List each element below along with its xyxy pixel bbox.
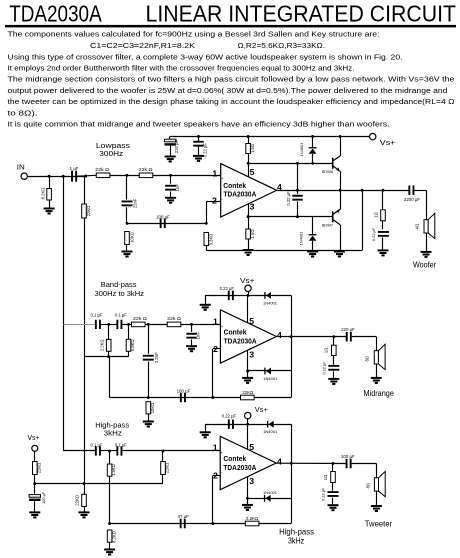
resistor 1.5 ohm pin3 [246, 229, 255, 250]
node fb2 row2 [211, 396, 214, 399]
capacitor 0.1uF bp1 [91, 313, 103, 329]
ground 1nF row2 [186, 346, 197, 351]
node interbase bottom [296, 215, 299, 218]
ground woofer [421, 252, 432, 257]
capacitor 1nF shunt [165, 175, 180, 198]
node bp mid2 [147, 323, 150, 326]
svg-text:0.22 µF: 0.22 µF [286, 191, 291, 206]
diode D1 1N4001 [299, 137, 316, 164]
svg-text:LINEAR INTEGRATED CIRCUIT: LINEAR INTEGRATED CIRCUIT [146, 1, 457, 27]
svg-text:0.1 µF: 0.1 µF [115, 442, 127, 447]
ground input shunt [44, 209, 55, 214]
svg-text:1: 1 [212, 168, 217, 178]
node fb1 row2 [147, 396, 150, 399]
ground 0.22uF row3 [200, 424, 211, 437]
svg-text:Woofer: Woofer [413, 260, 436, 269]
ground 1nF [165, 198, 176, 203]
capacitor 100uF output row3 [341, 454, 355, 468]
svg-text:The midrange section consisto: The midrange section consistors of two f… [8, 75, 455, 84]
capacitor 0.1uF hp1 [91, 442, 103, 455]
svg-text:The components values calculat: The components values calculated for fc=… [8, 30, 380, 39]
svg-text:300Hz: 300Hz [99, 149, 123, 158]
node B junction [84, 175, 87, 178]
wire IN to node A [27, 176, 85, 178]
capacitor 22nF mid node [122, 175, 138, 223]
ground pin3 row2 [242, 378, 253, 383]
wire pin2 row2 [213, 348, 221, 350]
wire base1 [248, 163, 333, 165]
op-amp U1 Contek TDA2030A [221, 164, 277, 217]
label High-pass 3kHz top [95, 420, 129, 437]
ground zobel row1 [378, 250, 389, 255]
transistor Q2 BD907 [322, 190, 341, 251]
node hp n2 [162, 450, 165, 453]
svg-text:Contek: Contek [223, 183, 246, 190]
svg-text:22KΩ: 22KΩ [165, 463, 170, 474]
svg-text:1N4001: 1N4001 [299, 142, 304, 157]
svg-text:10KΩ: 10KΩ [130, 232, 135, 243]
wire bus node B down to bandpass [84, 218, 86, 357]
op-amp U3 Contek TDA2030A [220, 436, 276, 489]
wire pin5 riser [248, 163, 250, 177]
wire to tweeter [352, 463, 377, 465]
capacitor 100uF row2 [177, 388, 191, 402]
node 22nF bottom junction [126, 222, 129, 225]
resistor 8.2K row3 gnd [107, 530, 116, 550]
svg-text:Using this type of crossover f: Using this type of crossover filter, a c… [8, 52, 403, 61]
svg-text:2.2KΩ: 2.2KΩ [99, 339, 104, 351]
wire pin5 row2 [247, 295, 249, 322]
ground 10K row2 [143, 422, 154, 427]
resistor 6.8K bp shunt2 [126, 324, 135, 356]
wire pin5 row3 [247, 424, 249, 449]
wire output rail 1 [277, 190, 409, 192]
svg-text:1Ω: 1Ω [323, 348, 328, 353]
capacitor 0.22uF supply [193, 137, 207, 158]
wire pin3 row3 [247, 477, 249, 505]
svg-text:C1=C2=C3=22nF,R1=8.2K: C1=C2=C3=22nF,R1=8.2K [90, 41, 195, 50]
resistor 10K to ground [125, 232, 135, 252]
svg-text:Vs+: Vs+ [380, 140, 396, 147]
wire to woofer [414, 190, 426, 192]
ground 8.2K row3 [104, 550, 115, 555]
svg-text:22KΩ: 22KΩ [36, 463, 41, 474]
svg-text:22KΩ: 22KΩ [86, 206, 91, 217]
wire d6 [247, 498, 291, 500]
wire pin2 row3 [213, 475, 220, 477]
node 1nF row2 [190, 323, 193, 326]
capacitor 2200uF output [404, 185, 421, 201]
label Lowpass 300Hz [96, 141, 130, 158]
diode D3 1N4001 [263, 292, 278, 305]
svg-text:0.22 µF: 0.22 µF [321, 487, 326, 501]
zobel R row2 [323, 335, 336, 364]
svg-text:1.5KΩ: 1.5KΩ [111, 464, 116, 476]
transistor Q1 BD908 [322, 137, 341, 191]
svg-text:1N4001: 1N4001 [263, 376, 278, 381]
resistor 2.2K bp shunt1 [99, 324, 111, 356]
ground 0.22uF supply [193, 156, 204, 161]
speaker midrange [364, 344, 385, 378]
svg-text:1: 1 [213, 443, 218, 453]
svg-text:22k Ω: 22k Ω [139, 167, 153, 172]
wire bp mid [145, 324, 167, 326]
svg-text:5: 5 [249, 316, 254, 326]
svg-text:5: 5 [250, 167, 255, 177]
svg-text:8.2KΩ: 8.2KΩ [111, 531, 116, 543]
wire pin3 drop [248, 204, 250, 229]
node interbase top [296, 162, 299, 165]
diode D4 1N4001 [263, 368, 278, 381]
terminal Vs+ row1 [370, 133, 396, 147]
node fb out [361, 189, 364, 192]
zobel R row3 [323, 462, 335, 491]
svg-text:0.1 µF: 0.1 µF [115, 313, 127, 318]
wire feedback bottom [206, 250, 362, 252]
resistor 22K shunt at node B [82, 176, 91, 218]
capacitor 0.1uF bp2 [115, 313, 127, 329]
speaker tweeter [366, 471, 386, 506]
svg-text:2200 µF: 2200 µF [404, 197, 421, 202]
resistor 22K bias top [33, 462, 42, 484]
wire output row3 [276, 462, 346, 464]
svg-text:0.22 µF: 0.22 µF [222, 414, 237, 419]
svg-text:10KΩ: 10KΩ [150, 403, 155, 414]
diode D2 1N4001 [298, 217, 316, 252]
svg-text:22KΩ: 22KΩ [242, 390, 254, 395]
wire pin2 stub [206, 201, 220, 203]
svg-text:1N4001: 1N4001 [263, 490, 278, 495]
svg-text:22k Ω: 22k Ω [133, 316, 147, 321]
svg-text:Vs+: Vs+ [255, 407, 268, 414]
capacitor 1uF input [70, 166, 79, 182]
wire d4 [248, 370, 292, 372]
ground midrange [371, 378, 382, 383]
resistor 22k low-pass R1 [95, 167, 110, 178]
terminal Vs+ row2 [240, 278, 254, 295]
svg-text:Midrange: Midrange [364, 389, 395, 398]
resistor 1.5 ohm pin5 [246, 137, 255, 154]
svg-text:Contek: Contek [224, 330, 247, 337]
svg-text:0.1 µF: 0.1 µF [91, 442, 103, 447]
svg-text:1 µF: 1 µF [70, 166, 79, 171]
ground 10K [122, 252, 133, 257]
svg-text:BD907: BD907 [322, 224, 333, 228]
terminal Vs+ bias [28, 435, 40, 462]
svg-text:100 µF: 100 µF [341, 454, 355, 459]
svg-text:Vs+: Vs+ [240, 278, 254, 285]
svg-text:Vs+: Vs+ [28, 435, 40, 442]
svg-text:220 µF: 220 µF [341, 327, 355, 332]
svg-text:22KΩ: 22KΩ [75, 495, 80, 506]
wire D3 corner [291, 295, 293, 397]
wire cap to node B [77, 174, 96, 177]
ground bias bottom [79, 512, 90, 517]
svg-text:22k Ω: 22k Ω [167, 316, 181, 321]
node d6 junction [246, 497, 249, 500]
ground 220uF [165, 157, 176, 162]
svg-text:4Ω: 4Ω [415, 224, 420, 229]
resistor 22K fb row2 [241, 390, 255, 400]
svg-text:2.2KΩ: 2.2KΩ [246, 516, 259, 521]
zobel C 0.22uF row1 [371, 227, 389, 250]
node fb1 row3 [108, 522, 111, 525]
node D1 base [311, 162, 314, 165]
node A2 junction bus [62, 175, 65, 178]
svg-text:3.3KΩ: 3.3KΩ [209, 234, 214, 246]
diode D6 1N4001 [263, 490, 278, 502]
ground pin3 row3 [242, 505, 253, 510]
wire rail row2 gray [64, 324, 97, 326]
wire output row2 [276, 336, 346, 338]
resistor 22K hp shunt [161, 451, 170, 484]
capacitor 47uF row3 [178, 514, 190, 528]
resistor 10K row2 [146, 402, 155, 422]
wire supply rail row2 [205, 295, 291, 297]
svg-text:300Hz to 3kHz: 300Hz to 3kHz [95, 289, 145, 298]
svg-text:High-pass: High-pass [279, 528, 314, 537]
resistor 2.2K fb row3 [245, 516, 259, 526]
svg-text:8Ω: 8Ω [364, 356, 369, 361]
svg-text:TDA2030A: TDA2030A [9, 1, 102, 27]
ground pin3 [243, 250, 254, 255]
svg-text:1: 1 [213, 316, 218, 326]
ground 0.22uF row2 [200, 295, 211, 309]
resistor 22k low-pass R2 [139, 167, 153, 178]
node Q1 rail [339, 135, 342, 138]
svg-text:22k Ω: 22k Ω [95, 167, 109, 172]
wire bp shunt bottoms [84, 356, 129, 358]
svg-text:220 µF: 220 µF [174, 139, 179, 153]
capacitor 0.1uF hp2 [115, 442, 127, 455]
wire supply rail row3 [205, 424, 291, 426]
wire to midrange [352, 336, 377, 338]
svg-text:3: 3 [249, 350, 254, 360]
node A1 junction [48, 175, 51, 178]
wire feedback row3 [110, 523, 292, 525]
svg-text:5: 5 [249, 442, 254, 452]
svg-text:100 µF: 100 µF [41, 491, 46, 504]
svg-text:Contek: Contek [223, 456, 246, 463]
svg-text:+: + [221, 324, 224, 329]
node fb2 row3 [211, 522, 214, 525]
zobel C row3 [321, 487, 339, 505]
node 1nF junction [169, 174, 172, 177]
wire hp c1-c2 [101, 450, 117, 452]
svg-text:It is quite common that midran: It is quite common that midrange and twe… [8, 120, 390, 129]
node fb junction [205, 222, 208, 225]
svg-text:8.2KΩ: 8.2KΩ [40, 188, 45, 200]
node 0.22uF supply junction [197, 135, 200, 138]
svg-text:1N4001: 1N4001 [298, 231, 303, 246]
svg-text:3: 3 [249, 476, 254, 486]
svg-text:3: 3 [250, 202, 255, 212]
svg-text:47 µF: 47 µF [178, 514, 190, 519]
capacitor 0.22uF row2 [220, 286, 235, 300]
label Band-pass [95, 280, 145, 298]
wire bus to bias [84, 357, 86, 484]
terminal IN [17, 165, 28, 180]
svg-text:Tweeter: Tweeter [365, 519, 393, 528]
svg-text:4: 4 [277, 456, 282, 466]
svg-text:6.8KΩ: 6.8KΩ [130, 339, 135, 351]
wire R1 to mid node [110, 175, 139, 177]
svg-text:8Ω: 8Ω [366, 483, 371, 488]
ground bias cap [29, 512, 40, 517]
title rule [5, 25, 456, 28]
svg-text:0.22 µF: 0.22 µF [321, 361, 326, 375]
wire c2 to R [122, 324, 131, 326]
wire c1-c2 [101, 324, 117, 326]
wire bp R2 to pin1 [181, 324, 221, 326]
wire hp c2 to pin1 [122, 450, 220, 452]
svg-text:3kHz: 3kHz [104, 429, 122, 438]
resistor 3.3K feedback [204, 233, 214, 251]
svg-text:TDA2030A: TDA2030A [223, 465, 256, 472]
svg-text:2.2nF: 2.2nF [154, 352, 159, 363]
node D1 rail [311, 135, 314, 138]
svg-text:1N4001: 1N4001 [263, 300, 278, 305]
node bp mid [107, 323, 110, 326]
node hp mid [108, 450, 111, 453]
node Q emitters [339, 189, 342, 192]
node base2 junction [247, 215, 250, 218]
svg-text:BD908: BD908 [322, 170, 333, 174]
wire top supply rail [170, 136, 370, 138]
svg-text:100 µF: 100 µF [156, 214, 170, 219]
capacitor 1nF row2 [186, 324, 200, 346]
wire R2 to pin1 [153, 175, 221, 177]
terminal Vs+ row3 [245, 407, 268, 424]
svg-text:output power delivered to the: output power delivered to the woofer is … [8, 86, 448, 95]
wire 100uF feedback [127, 223, 206, 225]
svg-text:+: + [221, 450, 224, 455]
svg-text:It employs 2nd order Buttherwo: It employs 2nd order Buttherworth filter… [8, 64, 355, 73]
node bp after c2 [127, 323, 130, 326]
node output x cap [296, 189, 299, 192]
svg-text:Ω,R2=5.6KΩ,R3=33KΩ.: Ω,R2=5.6KΩ,R3=33KΩ. [238, 41, 326, 50]
node mid junction [126, 174, 129, 177]
capacitor 100uF feedback [156, 214, 170, 228]
svg-text:0.1 µF: 0.1 µF [91, 313, 103, 318]
ground zobel row2 [328, 379, 339, 384]
wire bias rail [35, 483, 163, 485]
ground Q2 [334, 252, 345, 257]
svg-text:Band-pass: Band-pass [101, 280, 137, 289]
wire D5 corner [291, 424, 293, 523]
ground tweeter [371, 506, 382, 511]
resistor 8.2K input shunt [40, 176, 51, 208]
svg-text:to 8Ω).: to 8Ω). [8, 108, 38, 117]
capacitor 2.2nF bp [143, 324, 159, 397]
svg-text:TDA2030A: TDA2030A [224, 192, 257, 199]
svg-text:1.5Ω: 1.5Ω [250, 230, 255, 239]
label High-pass 3kHz bottom [279, 528, 314, 546]
ground D2 [307, 252, 318, 257]
svg-text:0.22 µF: 0.22 µF [371, 227, 376, 241]
svg-text:1Ω: 1Ω [323, 475, 328, 480]
svg-text:100 µF: 100 µF [177, 388, 191, 393]
zobel R 1 ohm row1 [374, 189, 386, 230]
svg-text:0.22 µF: 0.22 µF [220, 286, 235, 291]
op-amp U2 Contek TDA2030A [220, 310, 276, 363]
capacitor 0.22uF interbase [286, 163, 302, 216]
svg-text:22nF: 22nF [133, 198, 138, 208]
svg-text:+: + [221, 176, 224, 181]
svg-text:3kHz: 3kHz [288, 536, 304, 545]
zobel C row2 [321, 361, 339, 379]
resistor 1.5K hp mid [107, 451, 116, 524]
svg-text:1nF: 1nF [196, 332, 201, 340]
svg-text:the tweeter can be optimized i: the tweeter can be optimized in the desi… [8, 97, 455, 106]
svg-text:1Ω: 1Ω [374, 212, 379, 217]
svg-text:1N4001: 1N4001 [263, 429, 278, 434]
capacitor 220uF supply [165, 137, 179, 157]
resistor 22K bias bottom [75, 484, 87, 513]
speaker woofer [415, 213, 435, 252]
wire bus IN vertical [63, 176, 65, 451]
ground zobel row3 [328, 505, 339, 510]
capacitor 0.22uF row3 [222, 414, 237, 429]
wire hp rail [63, 450, 96, 452]
svg-text:TDA2030A: TDA2030A [224, 339, 257, 346]
resistor 22k bp R2 [167, 316, 181, 327]
wire base2 [248, 216, 333, 218]
wire pin3 row2 [247, 351, 249, 378]
diode D5 1N4001 [263, 421, 278, 434]
wire feedback row2 [110, 397, 292, 399]
svg-text:4: 4 [277, 330, 282, 340]
wire shunt junction to feedback [109, 357, 111, 398]
svg-text:1nF: 1nF [175, 184, 180, 192]
svg-text:1.5Ω: 1.5Ω [250, 144, 255, 153]
node pin5 rail junction [247, 135, 250, 138]
svg-text:2: 2 [212, 195, 217, 205]
capacitor 100uF bias [29, 484, 46, 513]
resistor 22k bp R1 [132, 316, 148, 327]
svg-text:IN: IN [17, 165, 25, 172]
capacitor 220uF output row2 [341, 327, 355, 341]
node d4 junction [246, 370, 249, 373]
